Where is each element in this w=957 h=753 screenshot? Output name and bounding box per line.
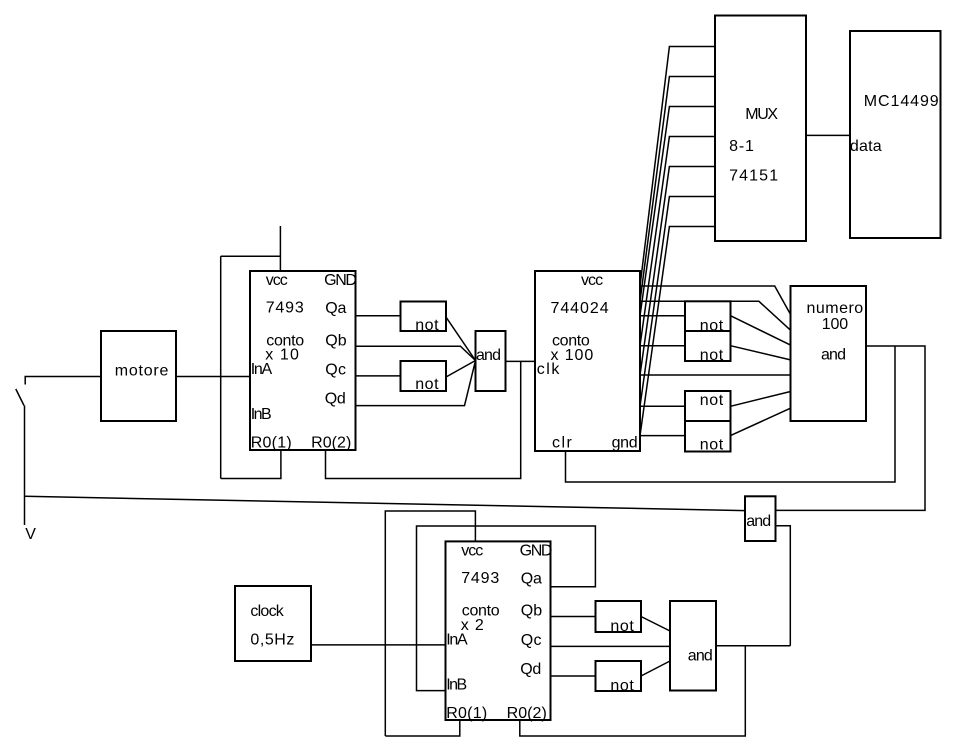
svg-text:8-1: 8-1: [729, 138, 755, 155]
svg-text:Qd: Qd: [325, 391, 346, 408]
svg-text:0,5Hz: 0,5Hz: [250, 632, 295, 649]
svg-text:and: and: [821, 347, 845, 364]
svg-text:7493: 7493: [266, 300, 305, 317]
svg-text:InB: InB: [251, 406, 271, 423]
svg-text:R0(1): R0(1): [251, 435, 292, 452]
svg-text:GND: GND: [520, 542, 552, 559]
svg-text:InB: InB: [446, 676, 466, 693]
svg-text:GND: GND: [324, 272, 356, 289]
svg-text:clr: clr: [552, 435, 573, 452]
svg-text:not: not: [700, 347, 724, 364]
svg-text:InA: InA: [446, 631, 468, 648]
svg-text:100: 100: [822, 316, 848, 333]
svg-text:numero: numero: [807, 300, 864, 317]
svg-text:clock: clock: [250, 603, 284, 620]
svg-text:MUX: MUX: [745, 106, 778, 123]
svg-text:R0(2): R0(2): [311, 435, 351, 452]
svg-text:vcc: vcc: [581, 272, 603, 289]
svg-text:not: not: [610, 618, 634, 635]
svg-text:not: not: [700, 392, 724, 409]
svg-text:not: not: [700, 437, 724, 454]
svg-text:motore: motore: [115, 363, 169, 380]
svg-text:744024: 744024: [551, 300, 610, 317]
svg-text:not: not: [415, 376, 439, 393]
svg-text:gnd: gnd: [612, 435, 638, 452]
svg-text:Qd: Qd: [520, 661, 541, 678]
svg-text:data: data: [850, 138, 882, 155]
svg-text:R0(1): R0(1): [446, 705, 487, 722]
svg-text:and: and: [476, 347, 500, 364]
svg-text:Qc: Qc: [521, 632, 542, 649]
svg-text:Qa: Qa: [521, 570, 542, 587]
svg-text:vcc: vcc: [266, 272, 288, 289]
svg-text:not: not: [610, 678, 634, 695]
svg-text:74151: 74151: [729, 168, 779, 185]
svg-text:7493: 7493: [461, 570, 500, 587]
svg-text:Qc: Qc: [325, 361, 346, 378]
svg-text:vcc: vcc: [461, 542, 483, 559]
svg-text:InA: InA: [251, 361, 273, 378]
svg-text:clk: clk: [537, 361, 561, 378]
svg-text:and: and: [746, 513, 770, 530]
svg-text:R0(2): R0(2): [507, 705, 547, 722]
svg-text:Qb: Qb: [521, 603, 542, 620]
svg-text:Qb: Qb: [325, 332, 346, 349]
svg-text:Qa: Qa: [325, 300, 346, 317]
svg-text:MC14499: MC14499: [864, 93, 940, 110]
svg-text:not: not: [700, 318, 724, 335]
svg-text:V: V: [25, 526, 36, 543]
svg-text:and: and: [688, 648, 712, 665]
svg-text:not: not: [415, 317, 439, 334]
